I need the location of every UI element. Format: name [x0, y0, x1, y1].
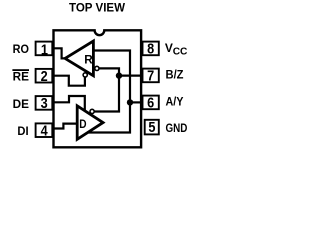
svg-text:RE: RE [13, 70, 29, 84]
svg-text:1: 1 [41, 42, 48, 58]
svg-text:8: 8 [147, 41, 154, 57]
svg-text:B/Z: B/Z [166, 68, 184, 82]
svg-text:5: 5 [148, 119, 155, 135]
svg-text:CC: CC [173, 47, 188, 58]
svg-text:DE: DE [13, 97, 29, 111]
svg-text:2: 2 [41, 68, 48, 84]
svg-text:6: 6 [147, 95, 154, 111]
svg-text:A/Y: A/Y [166, 95, 184, 109]
svg-text:7: 7 [147, 68, 154, 84]
svg-text:R: R [84, 54, 93, 67]
svg-text:D: D [79, 119, 86, 131]
svg-text:3: 3 [41, 95, 48, 111]
svg-text:TOP VIEW: TOP VIEW [69, 0, 126, 14]
svg-text:RO: RO [13, 42, 29, 56]
svg-text:4: 4 [41, 123, 48, 139]
svg-text:GND: GND [166, 121, 188, 135]
svg-text:DI: DI [17, 124, 28, 138]
